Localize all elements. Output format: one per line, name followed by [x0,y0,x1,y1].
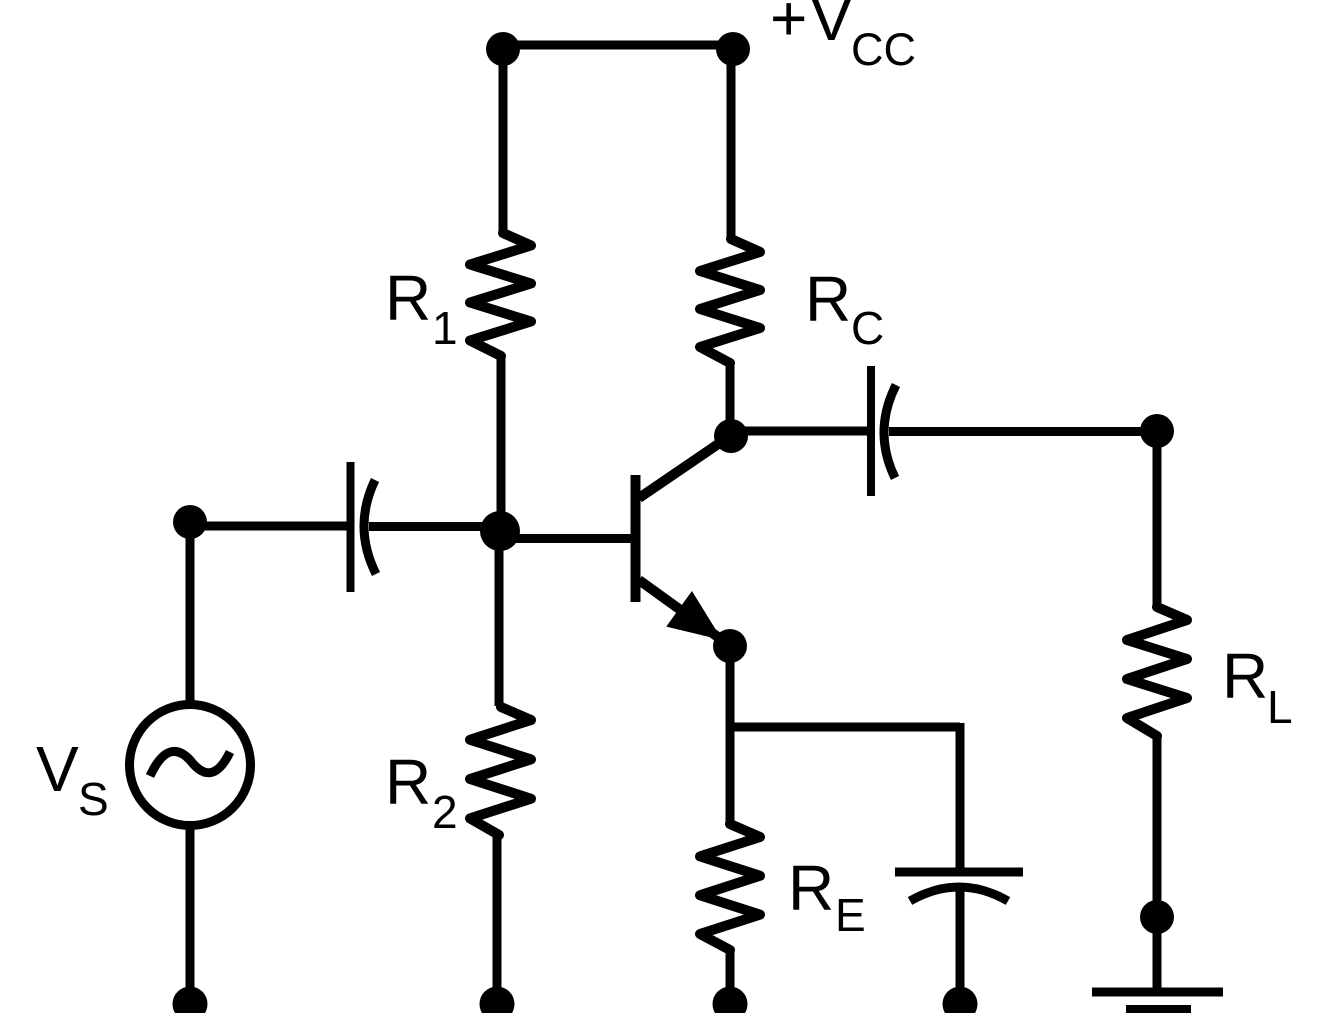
resistor R2 [470,707,531,835]
label R2 [385,746,458,838]
svg-text:E: E [835,889,866,941]
svg-text:S: S [78,773,109,825]
wire: output cap to output node [889,427,1157,436]
label R1 [385,262,458,354]
wire: output node to RL [1153,431,1162,606]
svg-text:R: R [805,263,851,335]
wire: bypass cap branch (vertical) [956,723,965,869]
wire: RL to ground node [1153,737,1162,917]
svg-text:R: R [385,262,431,334]
node: collector junction [714,419,748,453]
wire: RC to collector node [726,364,735,436]
wire: collector node to output cap [731,427,868,436]
node: bypass cap bottom terminal [943,987,978,1013]
svg-text:C: C [851,302,884,354]
transistor Q1 [636,438,730,645]
wire: VS to bottom terminal [186,825,195,1007]
node: base junction [480,511,520,551]
wire: +VCC supply rail [503,41,733,50]
svg-text:1: 1 [432,302,458,354]
svg-text:R: R [788,852,834,924]
label +VCC [770,0,916,75]
node: source output junction [173,505,207,539]
node: output junction [1140,414,1174,448]
svg-text:L: L [1267,681,1293,733]
voltage source VS [130,705,251,826]
wire: ground node to ground symbol [1153,917,1162,988]
node: emitter junction [713,629,747,663]
wire: R2 to bottom terminal [493,836,502,1007]
capacitor C2 (output coupling) [871,366,896,496]
wire: source node to input coupling cap [192,522,347,531]
svg-text:V: V [36,733,79,805]
svg-text:+: + [770,0,807,54]
label RC [805,263,884,354]
node: VS bottom terminal [173,987,208,1013]
svg-text:R: R [1222,640,1268,712]
svg-text:2: 2 [432,786,458,838]
wire: bypass cap to bottom terminal [956,891,965,1007]
label RE [788,852,866,941]
capacitor C1 (input coupling) [351,462,377,592]
resistor RE [700,824,760,950]
resistor RC [700,239,760,363]
label RL [1222,640,1293,733]
resistor RL [1127,607,1187,736]
ground [1092,992,1223,1010]
svg-text:V: V [810,0,853,54]
wire: source node to VS [186,522,195,706]
node: R2 bottom terminal [480,987,515,1013]
wire: VCC rail to RC [727,49,736,238]
capacitor CE (emitter bypass) [895,872,1023,901]
wire: emitter node to RE [726,646,735,823]
resistor R1 [470,233,531,356]
wire: VCC rail to R1 [499,49,508,232]
node: RE bottom terminal [713,987,748,1013]
node: VCC rail left junction [486,32,520,66]
wire: RE to bottom terminal [726,951,735,1007]
node: RL ground junction [1140,900,1174,934]
svg-text:CC: CC [851,24,916,75]
wire: base node to R2 [495,537,504,706]
wire: input cap to base node [369,522,498,531]
node: VCC rail right junction [716,32,750,66]
wire: emitter branch to bypass cap (horizontal) [729,723,960,732]
wire: R1 to base node [497,357,506,525]
svg-text:R: R [385,746,431,818]
wire: base node to transistor base [500,534,632,543]
label VS [36,733,109,825]
